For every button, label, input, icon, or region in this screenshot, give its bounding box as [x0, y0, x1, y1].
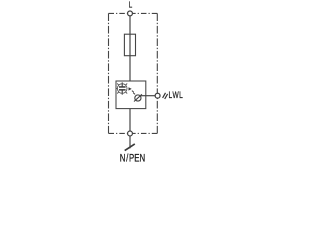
wire detector to LWL terminal [141, 95, 156, 97]
terminal N/PEN (node) [128, 131, 133, 136]
fuse F1 [124, 34, 135, 56]
optical detector slash [134, 94, 142, 101]
fiber optic double slash [163, 93, 168, 99]
svg-text:L: L [129, 0, 133, 10]
wire L terminal to fuse [129, 15, 131, 34]
spark gap electrode stubs [121, 84, 123, 87]
optical coupling arrow [129, 87, 132, 90]
optical detector D1 (crossed circle) [135, 95, 141, 101]
conductor slash at N/PEN [125, 144, 135, 151]
protection module box U1 [116, 81, 146, 109]
optical coupling dashed rays [132, 91, 135, 95]
wire module box to N/PEN terminal [129, 109, 131, 132]
svg-text:N/PEN: N/PEN [120, 152, 145, 164]
svg-text:LWL: LWL [169, 90, 184, 100]
spark gap electrodes [119, 86, 126, 88]
spark gap trigger ticks [116, 82, 128, 95]
wire below N/PEN terminal [129, 136, 131, 148]
wire through fuse to protection-module box [129, 34, 131, 81]
device boundary (dash-dot enclosure) [109, 13, 158, 133]
spark gap FS (encapsulated, circle with electrodes) [117, 84, 127, 94]
terminal L (node) [128, 11, 133, 16]
terminal LWL (node) [155, 93, 160, 98]
